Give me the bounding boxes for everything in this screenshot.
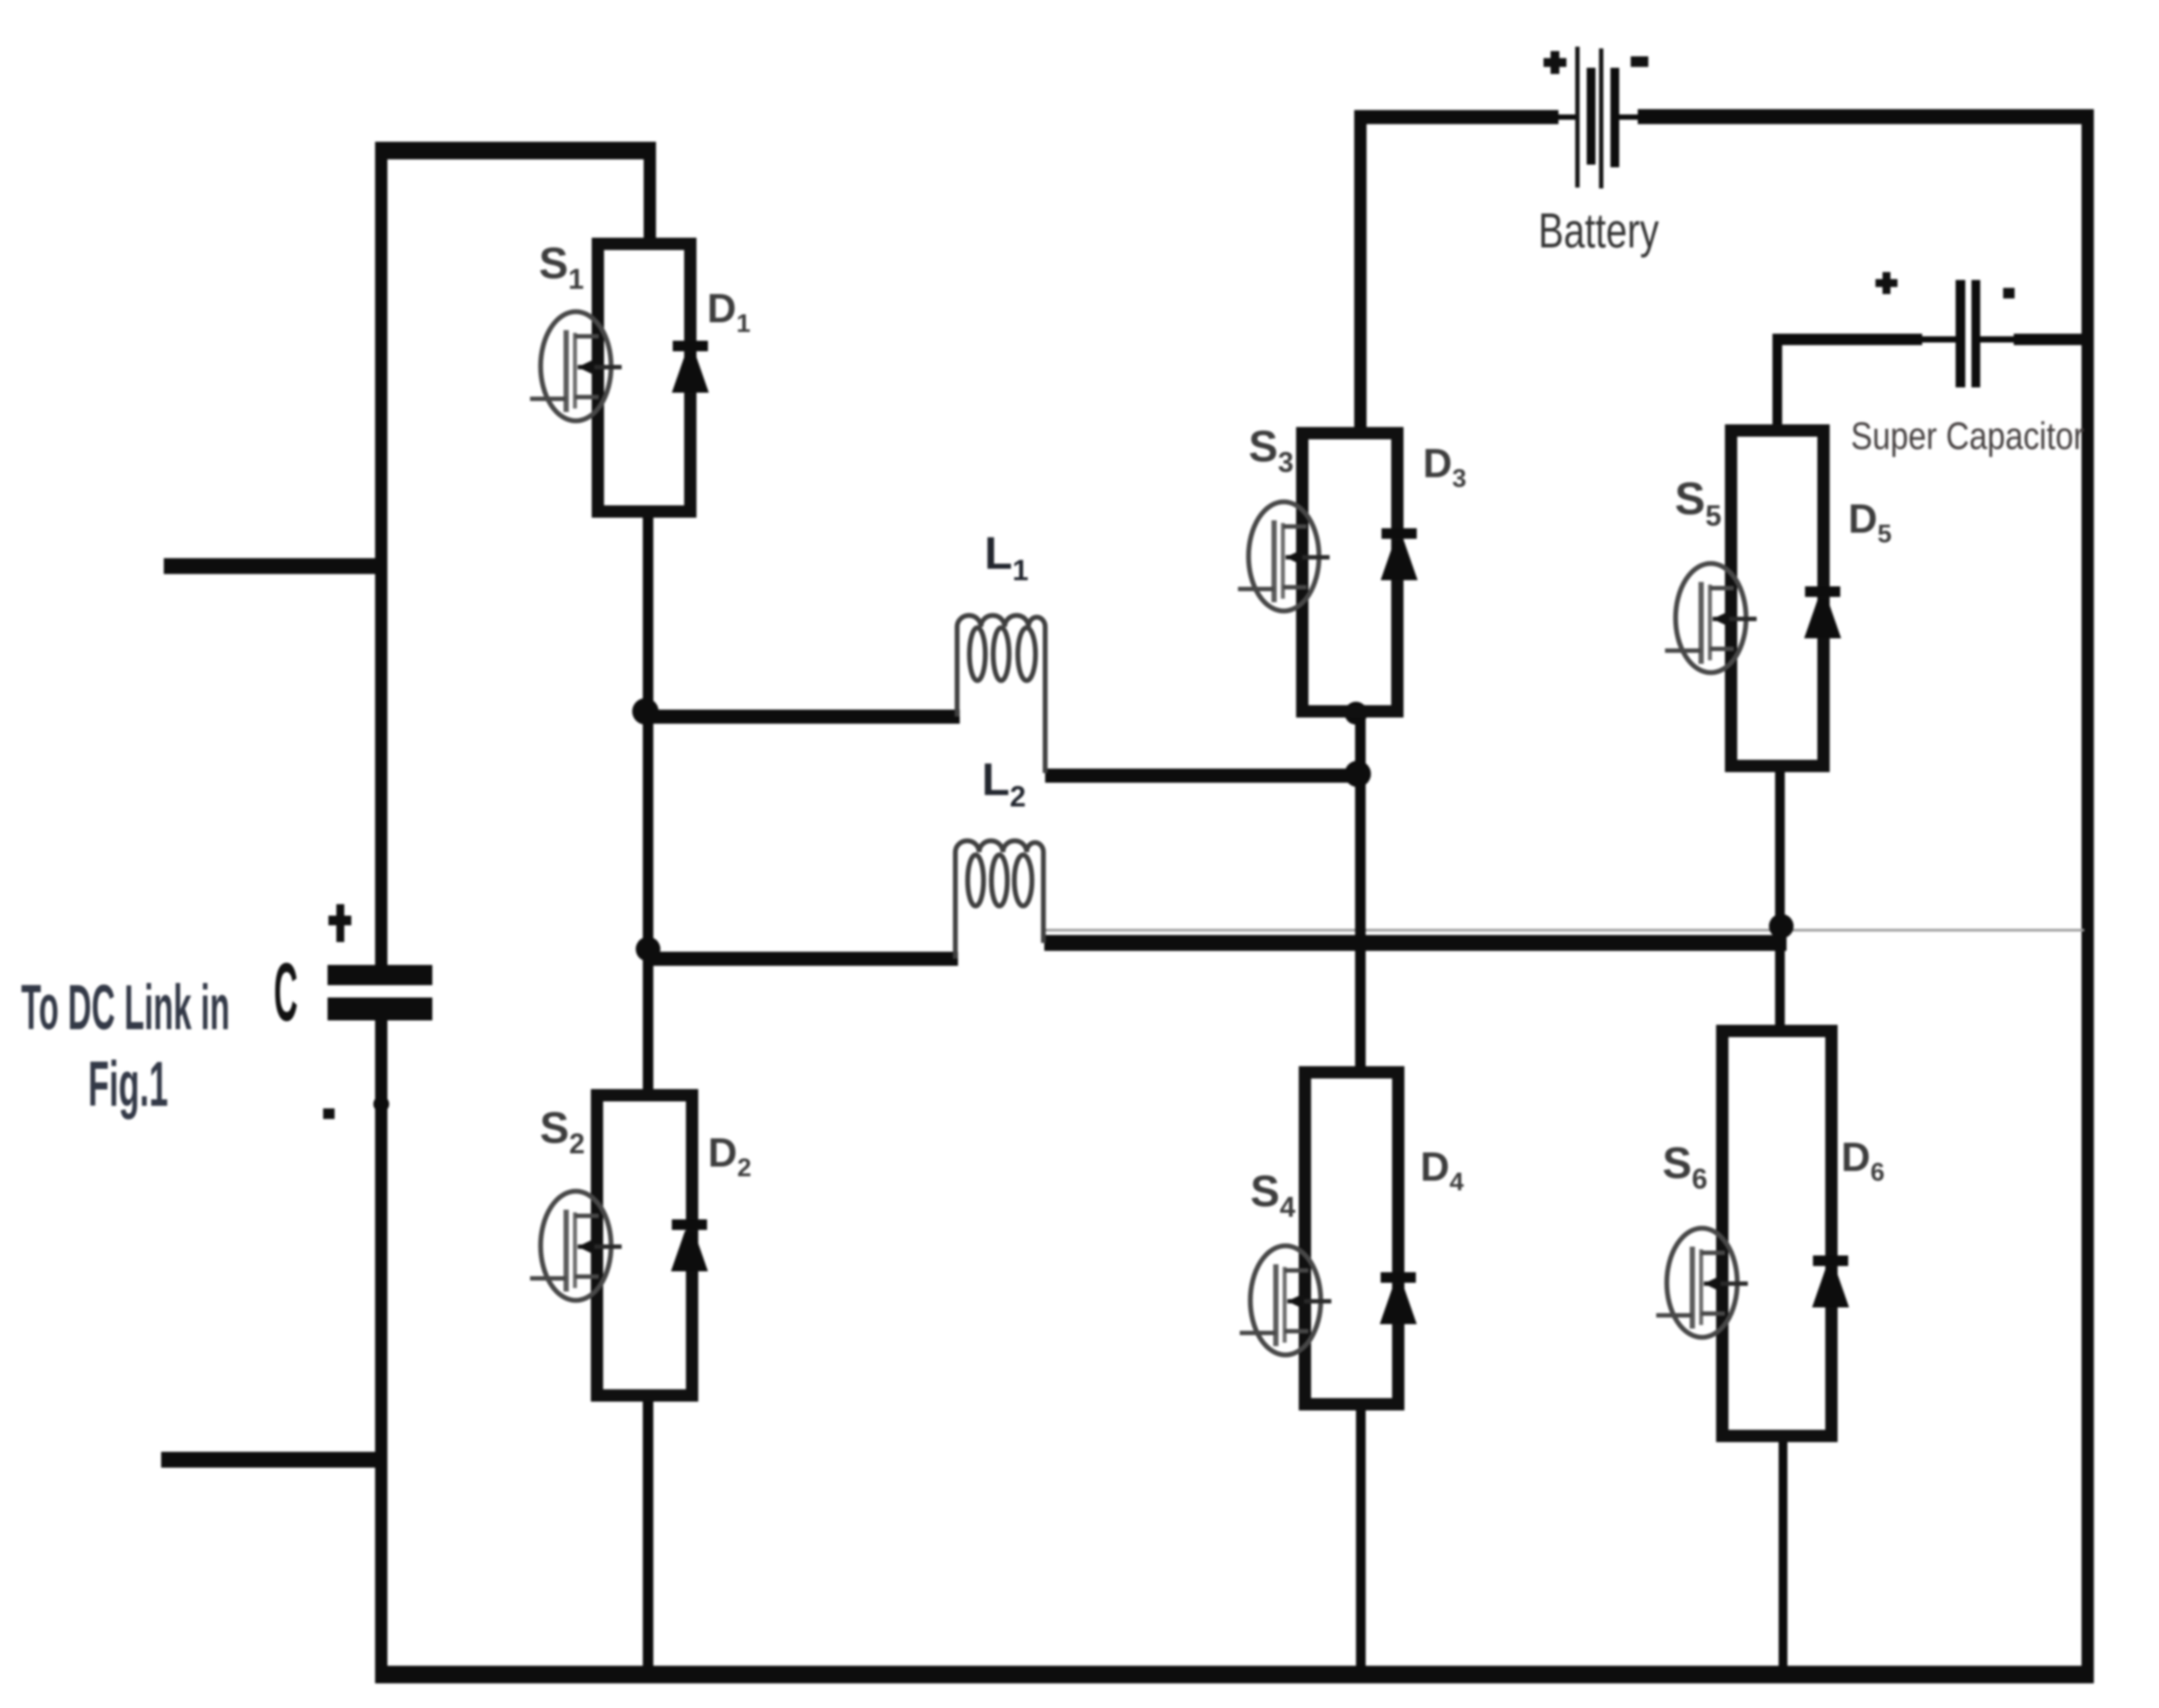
diode D5 [1804, 586, 1841, 638]
wire left input stub lower [161, 1452, 381, 1468]
wire right bus [2082, 109, 2094, 1683]
node D (L2 out / S5-S6 leg) [1769, 914, 1794, 939]
node capacitor minus terminal [373, 1096, 389, 1112]
wire S6 to bottom bus [1779, 1431, 1787, 1675]
wire S1 feed vertical [644, 142, 656, 247]
wire L2 output ghost line [1044, 929, 2084, 931]
minus sign supercapacitor [2003, 288, 2015, 298]
wire S2 to bottom bus [643, 1390, 653, 1675]
wire supercap right lead [2014, 334, 2088, 345]
plus sign battery [1544, 51, 1566, 74]
switch box S3 [1302, 433, 1397, 711]
switch box S5 [1731, 431, 1824, 766]
wire S3 to S4 vertical [1355, 706, 1366, 1078]
wire battery right lead [1638, 109, 2094, 124]
plus sign supercapacitor [1875, 272, 1897, 294]
plus sign capacitor C [328, 904, 351, 942]
wire battery right thin lead [1618, 114, 1640, 120]
minus sign capacitor C [323, 1108, 335, 1119]
transistor S2 MOSFET symbol [530, 1191, 622, 1300]
wire top-left horizontal [375, 142, 656, 159]
svg-text:Super Capacitor: Super Capacitor [1851, 415, 2084, 458]
wire node A to L1 [645, 710, 960, 724]
wire left bus upper (above capacitor C) [375, 142, 387, 965]
switch box S2 [597, 1095, 692, 1395]
node B (L1 out / S3-S4 leg) [1345, 761, 1371, 787]
diode D1 [672, 341, 709, 393]
transistor S5 MOSFET symbol [1665, 563, 1757, 673]
svg-text:C: C [274, 946, 298, 1039]
svg-text:To DC Link in: To DC Link in [21, 973, 230, 1043]
wire S1 to S2 vertical [643, 506, 653, 1101]
wire supercap vertical to S5 [1772, 334, 1782, 436]
wire left input stub upper [164, 558, 381, 574]
switch box S6 [1722, 1031, 1831, 1436]
diode D4 [1380, 1272, 1417, 1324]
diode D3 [1381, 528, 1418, 580]
inductor L2 [955, 841, 1043, 959]
svg-text:Battery: Battery [1538, 202, 1659, 258]
minus sign battery [1631, 56, 1648, 67]
transistor S3 MOSFET symbol [1238, 502, 1330, 611]
transistor S6 MOSFET symbol [1656, 1228, 1748, 1337]
wire battery left thin lead [1557, 114, 1578, 120]
wire node C to L2 [648, 952, 958, 966]
wire battery vertical to S3 [1354, 110, 1367, 439]
switch box S1 [598, 244, 690, 512]
capacitor C plates [328, 965, 432, 1020]
switch box S4 [1305, 1072, 1398, 1404]
inductor L1 [957, 615, 1045, 773]
wire left bus lower (below capacitor C) [375, 1020, 387, 1683]
supercapacitor plates [1956, 280, 1980, 387]
diode D2 [671, 1219, 708, 1271]
wire L2 output to S5/S6 leg [1044, 935, 1787, 951]
wire S4 to bottom bus [1356, 1399, 1366, 1675]
battery plates [1575, 47, 1619, 188]
wire S5 to S6 vertical [1775, 761, 1785, 1036]
wire supercap right thin lead [1980, 336, 2016, 342]
wire supercap left thin lead [1920, 336, 1956, 342]
transistor S4 MOSFET symbol [1240, 1246, 1331, 1355]
node C (S1-S2 leg to L2) [636, 937, 660, 961]
wire bottom bus [375, 1666, 2094, 1683]
diode D6 [1812, 1255, 1849, 1307]
svg-text:Fig.1: Fig.1 [88, 1049, 168, 1120]
wire L1 to node B [1045, 769, 1361, 783]
transistor S1 MOSFET symbol [530, 312, 622, 421]
node A (S1-S2 midpoint to L1) [632, 698, 659, 725]
node S3 bottom [1345, 702, 1367, 725]
wire supercap left lead [1772, 334, 1922, 345]
wire battery left lead [1354, 110, 1558, 124]
